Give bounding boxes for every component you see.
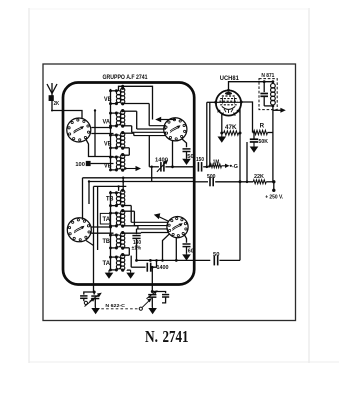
svg-text:TA: TA [103,216,111,223]
svg-text:1M: 1M [213,159,220,165]
svg-text:60: 60 [188,248,194,254]
svg-text:R: R [260,124,265,130]
svg-text:N 622-C: N 622-C [105,303,125,308]
svg-text:2741: 2741 [163,327,189,346]
svg-text:N.: N. [145,327,158,346]
svg-text:150: 150 [196,157,204,163]
svg-text:TA: TA [103,260,111,267]
svg-text:TB: TB [103,238,111,245]
svg-text:VA: VA [103,118,111,125]
svg-text:50: 50 [187,154,194,160]
svg-text:100: 100 [75,162,85,168]
svg-text:500: 500 [207,174,216,180]
svg-text:GRUPPO A.F 2741: GRUPPO A.F 2741 [103,74,148,81]
svg-text:47K: 47K [225,125,237,131]
svg-text:50K: 50K [259,139,269,145]
svg-text:50: 50 [213,252,220,258]
svg-text:+ 250 V.: + 250 V. [265,194,284,200]
svg-text:1400: 1400 [157,265,169,271]
svg-text:-G: -G [232,164,238,170]
svg-text:±1%: ±1% [132,245,142,251]
svg-text:1400: 1400 [155,158,168,164]
svg-text:2K: 2K [54,101,60,107]
